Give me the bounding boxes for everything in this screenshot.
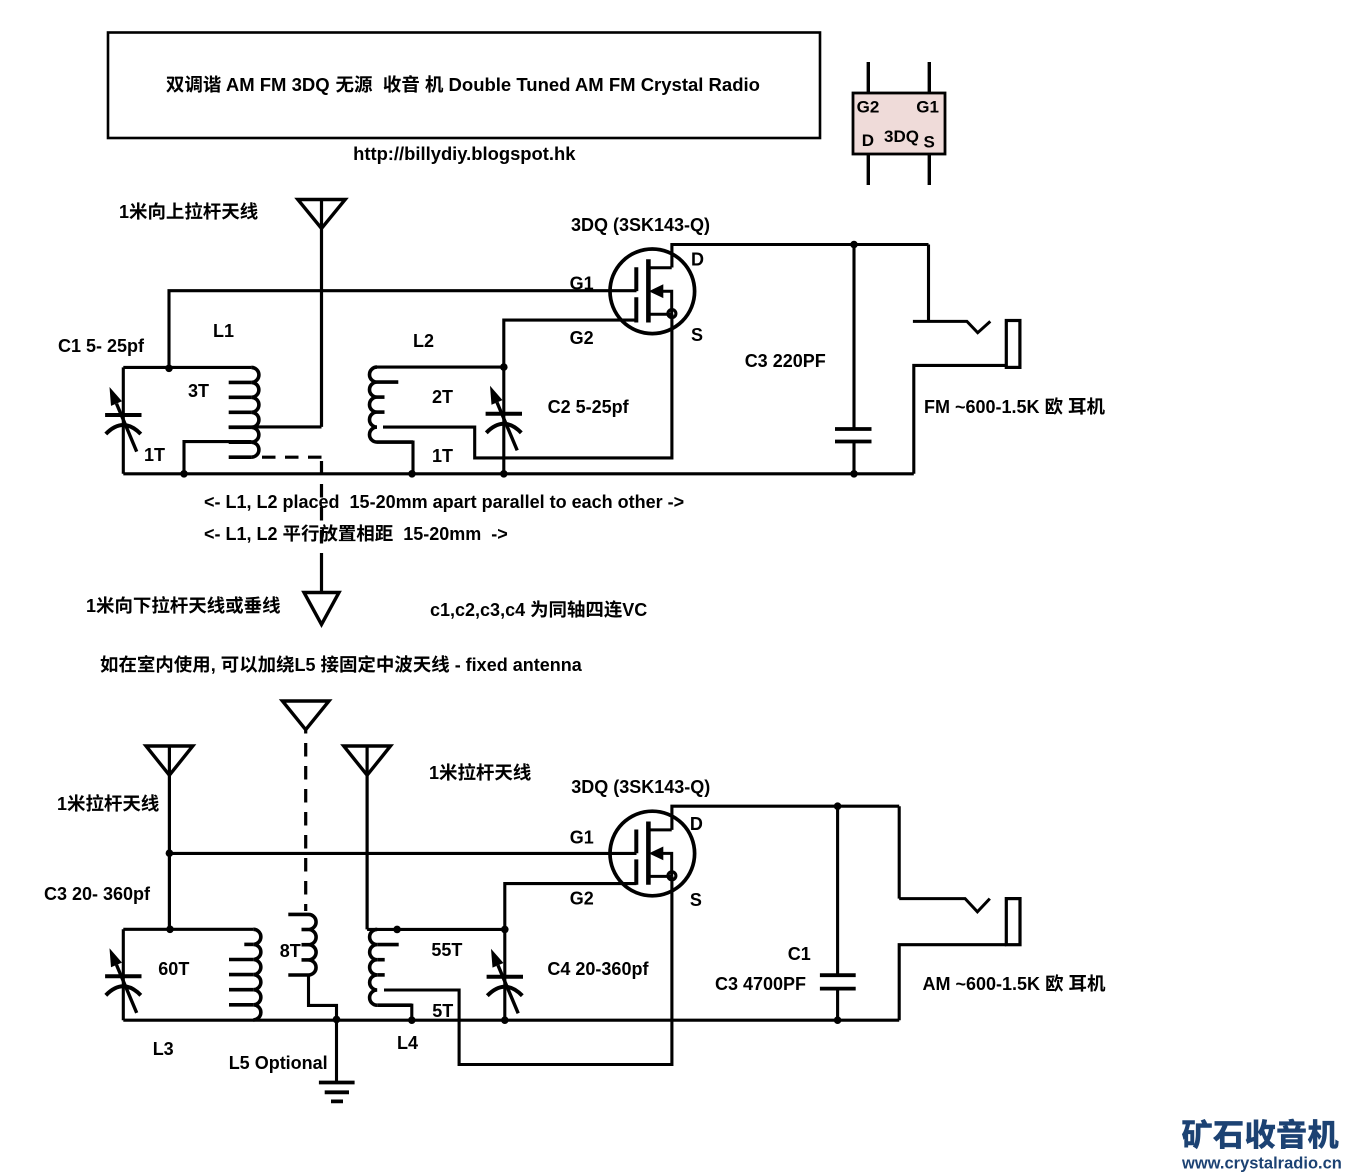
inductor L1 — [251, 367, 259, 457]
svg-text:G2: G2 — [570, 889, 594, 909]
svg-text:G2: G2 — [570, 328, 594, 348]
svg-text:L1: L1 — [213, 321, 234, 341]
svg-text:D: D — [691, 250, 704, 270]
capacitor C4 branch wire — [503, 929, 506, 1020]
wire L4 top / C4 / G2 — [367, 884, 636, 930]
wire D AM to C3/jack — [672, 806, 899, 830]
capacitor C3 20-360pf branch wire — [122, 929, 125, 1020]
antenna AM middle rod (optional) — [282, 701, 329, 730]
svg-text:D: D — [862, 131, 874, 150]
svg-text:AM ~600-1.5K: AM ~600-1.5K — [923, 974, 1046, 994]
capacitor C3 220PF — [852, 245, 855, 474]
wire L4 bottom to rail — [384, 1005, 412, 1020]
logo crystalradio CN — [1182, 1119, 1212, 1149]
FM ground rail — [123, 472, 914, 475]
svg-text:S: S — [924, 133, 935, 152]
node AM rail/C4 junction — [501, 1016, 509, 1024]
svg-text:C2 5-25pf: C2 5-25pf — [548, 397, 630, 417]
capacitor C1 5-25pf left branch wire — [122, 367, 125, 473]
antenna AM right rod — [344, 746, 391, 775]
svg-text:15-20mm ->: 15-20mm -> — [393, 524, 508, 544]
title text — [166, 77, 183, 93]
svg-text:3DQ (3SK143-Q): 3DQ (3SK143-Q) — [571, 215, 710, 235]
antenna down rod (dashed option) — [304, 593, 339, 625]
antenna AM left rod — [146, 746, 193, 775]
wire S AM to L4 tap (5T) — [384, 876, 672, 1064]
svg-text:C3 20- 360pf: C3 20- 360pf — [44, 884, 151, 904]
node FM rail/L2 junction — [408, 470, 416, 478]
headphone jack FM — [927, 245, 930, 322]
svg-text:1T: 1T — [144, 445, 165, 465]
svg-text:VC: VC — [622, 600, 647, 620]
node FM D/C3 junction — [850, 241, 858, 249]
node FM antenna/L1/C1/G1 junction — [165, 365, 173, 373]
svg-text:C1: C1 — [788, 944, 811, 964]
svg-text:c1,c2,c3,c4: c1,c2,c3,c4 — [430, 600, 530, 620]
svg-text:2T: 2T — [432, 387, 453, 407]
capacitor C3 4700PF — [836, 806, 839, 1020]
inductor L3 — [253, 929, 261, 1020]
inductor L5 optional — [309, 914, 317, 975]
svg-text:3DQ (3SK143-Q): 3DQ (3SK143-Q) — [571, 777, 710, 797]
svg-text:L3: L3 — [153, 1039, 174, 1059]
node FM rail/C2 junction — [500, 470, 508, 478]
svg-text:C3 220PF: C3 220PF — [745, 351, 826, 371]
svg-text:G1: G1 — [916, 98, 939, 117]
node FM rail/L1 junction — [180, 470, 188, 478]
svg-text:<- L1, L2 placed 15-20mm apar: <- L1, L2 placed 15-20mm apart parallel … — [204, 492, 684, 512]
svg-text:1: 1 — [86, 596, 96, 616]
svg-text:L2: L2 — [413, 331, 434, 351]
node AM L4 top junction — [393, 926, 401, 934]
AM ground rail — [123, 1019, 899, 1022]
wire G1 FM — [169, 291, 637, 369]
node FM L2/C2/G2 junction — [500, 363, 508, 371]
title box — [108, 33, 820, 139]
dashed wire L1 bottom end to down antenna — [262, 456, 322, 459]
svg-text:C3 4700PF: C3 4700PF — [715, 974, 806, 994]
wire L2 bottom to rail — [377, 442, 413, 474]
inductor L2 — [370, 367, 378, 442]
wire L2 top / C2 top / G2 — [377, 320, 637, 367]
svg-text:5T: 5T — [432, 1001, 453, 1021]
node AM L4/C4/G2 junction — [501, 926, 509, 934]
svg-text:Double Tuned AM FM Crystal Rad: Double Tuned AM FM Crystal Radio — [443, 74, 760, 95]
svg-text:8T: 8T — [280, 941, 301, 961]
svg-text:G1: G1 — [570, 274, 594, 294]
wire to down antenna — [320, 553, 323, 593]
capacitor C1 variable symbol — [105, 413, 141, 417]
wire G1 AM — [169, 852, 636, 855]
capacitor C3 20-360pf variable symbol — [105, 974, 141, 978]
svg-text:1: 1 — [57, 794, 67, 814]
node AM rail/L4 junction — [408, 1016, 416, 1024]
capacitor C4 20-360pf variable symbol — [487, 975, 523, 979]
svg-text:C4 20-360pf: C4 20-360pf — [547, 959, 649, 979]
wire D FM to C3/jack — [672, 245, 929, 268]
svg-text:www.crystalradio.cn: www.crystalradio.cn — [1181, 1155, 1342, 1173]
capacitor C2 branch wire — [502, 367, 505, 474]
svg-text:3T: 3T — [188, 381, 209, 401]
headphone jack AM — [898, 806, 901, 898]
wire L5 bottom to rail — [309, 975, 337, 1019]
svg-text:L5: L5 — [295, 655, 321, 675]
svg-text:<- L1, L2: <- L1, L2 — [204, 524, 283, 544]
antenna FM mast wire — [320, 200, 323, 427]
svg-text:C1 5- 25pf: C1 5- 25pf — [58, 336, 145, 356]
note L5 fixed antenna — [101, 655, 118, 672]
MOSFET Q2 3DQ (3SK143-Q) AM — [610, 811, 695, 896]
node AM rail/L5 ground junction — [333, 1016, 341, 1024]
wire S to L2 tap — [383, 314, 672, 458]
capacitor C2 variable symbol — [486, 412, 522, 416]
svg-text:3DQ: 3DQ — [884, 127, 919, 146]
svg-text:AM FM 3DQ: AM FM 3DQ — [221, 74, 334, 95]
node AM D/C3 junction — [834, 802, 842, 810]
svg-text:1: 1 — [119, 202, 129, 222]
svg-text:60T: 60T — [158, 959, 189, 979]
svg-text:G1: G1 — [570, 828, 594, 848]
MOSFET Q1 3DQ (3SK143-Q) FM — [610, 249, 695, 334]
ground symbol — [335, 1019, 338, 1081]
svg-text:L5 Optional: L5 Optional — [229, 1053, 328, 1073]
wire L1 lower tap to rail — [184, 442, 251, 474]
transistor package 3DQ pinout — [868, 62, 929, 185]
node AM antenna/G1 junction — [166, 849, 174, 857]
svg-text:G2: G2 — [857, 98, 880, 117]
svg-text:http://billydiy.blogspot.hk: http://billydiy.blogspot.hk — [353, 143, 576, 164]
svg-text:55T: 55T — [431, 940, 462, 960]
node FM rail/C3 junction — [850, 470, 858, 478]
svg-text:,: , — [211, 655, 221, 675]
node AM rail/C3 junction — [834, 1016, 842, 1024]
svg-text:1: 1 — [429, 763, 439, 783]
svg-text:1T: 1T — [432, 446, 453, 466]
svg-text:D: D — [690, 814, 703, 834]
svg-text:S: S — [691, 325, 703, 345]
svg-text:FM ~600-1.5K: FM ~600-1.5K — [924, 397, 1045, 417]
wire L1 antenna tap — [229, 425, 322, 428]
svg-text:S: S — [690, 890, 702, 910]
svg-text:L4: L4 — [397, 1033, 418, 1053]
inductor L4 — [370, 929, 378, 1005]
antenna FM rod (1m up) — [298, 200, 345, 229]
wire C1/L1 top — [123, 366, 251, 369]
node AM antenna/L3 junction — [166, 926, 174, 934]
wire L3/C3 top — [123, 928, 253, 931]
svg-text:- fixed antenna: - fixed antenna — [450, 655, 583, 675]
